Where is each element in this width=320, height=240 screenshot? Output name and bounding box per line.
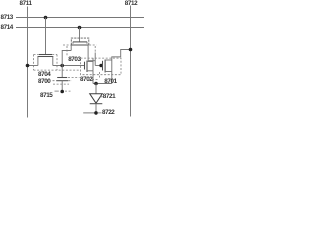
label 8702 [80,77,92,83]
dashed marks near labels 8702/8701 [92,72,100,80]
node junction dot N1 tap [60,64,64,68]
transistor Q8701 channel bar [104,60,106,73]
capacitor C8715 bottom lead [61,81,63,92]
capacitor C8715 top lead [61,66,63,78]
wire left foot of Q8704 to line 8711 [28,65,38,67]
node junction dot below capacitor [60,90,64,94]
transistor Q8702 channel bar [86,61,88,73]
wire right foot of Q8703 down to node N2 [88,60,95,62]
transistor Q8703 channel bar [71,44,89,46]
dashed box sides around Q8703 [67,46,95,56]
wire 8711 vertical bit line [27,7,29,118]
wire leader from label 8722 [98,112,102,114]
label 8713 [1,15,13,21]
transistor Q8704 right leg [52,57,54,66]
wire 8713 horizontal word line [16,17,145,19]
node junction dot on 8713 at gate of Q8704 [44,16,48,20]
label 8700 [38,79,50,85]
dashed line below Q8704 cell [34,69,80,71]
wire Q8701 drain up to line 8712 [112,50,131,61]
transistor Q8702 source-drain connector [92,58,94,71]
transistor Q8701 source-drain connector and wire to bottom rail [111,60,113,84]
wire Q8702 bottom stub to bottom rail [92,71,94,84]
transistor Q8703 gate bar end ticks [73,42,87,44]
diode D8721 cathode bar [90,103,103,105]
wire gate lead of Q8704 [45,18,47,55]
node junction dot on 8711 [26,64,30,68]
wire 8714 horizontal word line [16,27,145,29]
wire left foot of Q8703 down to node N1 [62,51,71,66]
transistor Q8701 bottom arm [105,71,112,73]
node junction dot on 8712 [129,48,133,52]
transistor Q8703 right leg [87,45,89,61]
label 8722 [102,110,114,116]
capacitor C8715 top plate [57,77,67,79]
wire net 8722 [83,112,96,114]
diode D8721 anode lead [95,84,97,94]
wire gate lead of Q8703 [79,28,81,42]
label 8701 [104,79,116,85]
transistor Q8703 gate bar [73,41,87,43]
wire leader from label 8715 [55,90,59,92]
dashed extensions at channel level of Q8703 [63,44,97,46]
node junction dot N2 [99,64,103,68]
node junction dot on 8714 at gate of Q8703 [78,26,82,30]
dashed box around Q8704 [34,55,58,71]
wire 8712 vertical bit line [130,6,132,117]
transistor Q8701 top arm [105,59,112,61]
transistor Q8704 channel bar [38,56,54,58]
node junction dot on net 8722 [94,111,98,115]
transistor Q8702 bottom arm [87,70,93,72]
dashed box around Q8702 and Q8701 [81,58,122,75]
label 8715 [40,93,52,99]
label 8721 [103,94,115,100]
diode D8721 triangle [90,94,103,104]
label 8703 [68,57,80,63]
transistor Q8702 gate bar [84,62,86,70]
dashed box around floating gate of Q8703 [71,38,89,45]
label 8712 [125,1,137,7]
label 8711 [20,1,32,7]
label 8714 [1,25,13,31]
capacitor C8715 bottom plate [56,80,68,82]
wire bottom rail joining Q8702/Q8701 [93,83,112,85]
transistor Q8701 gate bar [102,61,104,71]
wire leader from label 8721 [100,96,103,98]
wire drain riser at node N2 [94,53,96,66]
wire node N1: right foot of Q8704 to gate bar of Q8702 [53,65,85,67]
label 8704 [38,72,50,78]
transistor Q8702 top arm [87,61,93,63]
wire node N2: drain of Q8702 to gate bar of Q8701 [95,65,102,67]
node junction dot above diode [94,82,98,86]
transistor Q8704 left leg [37,57,39,66]
transistor Q8704 gate bar [39,54,52,56]
dashed lines around capacitor C8715 [53,78,80,92]
transistor Q8703 left leg [70,45,72,51]
diode D8721 cathode lead [95,104,97,113]
